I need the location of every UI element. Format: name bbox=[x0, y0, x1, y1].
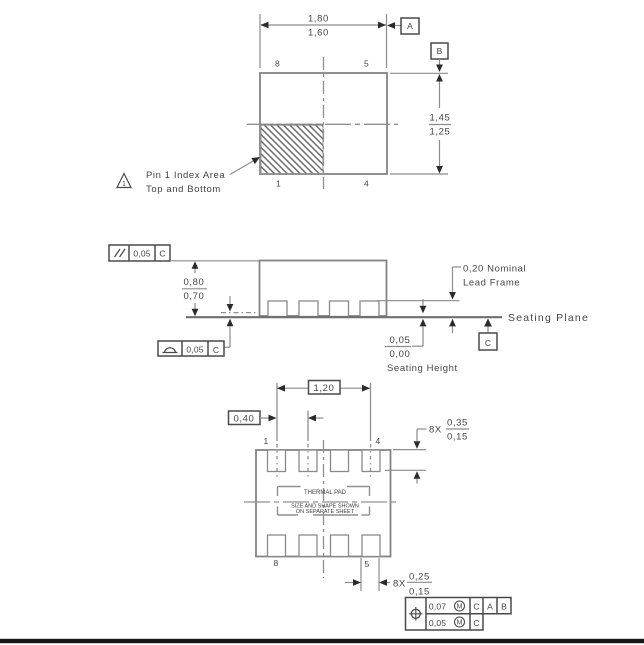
svg-text:0,05: 0,05 bbox=[133, 249, 150, 259]
lead frame hidden line bbox=[221, 312, 258, 314]
bottom view: pad 8 bbox=[268, 535, 286, 557]
top view: extension line right bbox=[386, 14, 388, 68]
pin 1 note leader bbox=[230, 157, 260, 175]
svg-text:1,20: 1,20 bbox=[314, 383, 335, 394]
side view: lead 2 bbox=[299, 301, 318, 317]
svg-text:1: 1 bbox=[264, 436, 269, 446]
dimension 0,40 bbox=[229, 411, 324, 425]
seating plane flatness feature control frame bbox=[158, 341, 224, 356]
bottom view: pad 5 bbox=[362, 535, 380, 557]
svg-text:Top and Bottom: Top and Bottom bbox=[146, 184, 221, 195]
dimension 1,45/1,25 bbox=[390, 73, 451, 174]
svg-text:0,05: 0,05 bbox=[390, 335, 411, 346]
svg-text:C: C bbox=[485, 338, 491, 348]
lead frame top extension line bbox=[377, 300, 460, 302]
datum feature symbol B bbox=[431, 43, 448, 72]
svg-text:0,15: 0,15 bbox=[409, 587, 430, 598]
svg-text:B: B bbox=[501, 602, 507, 612]
bottom view: pad 6 bbox=[331, 535, 349, 557]
bottom view: pad 4 bbox=[362, 450, 380, 472]
dimension 8X 0,35/0,15 bbox=[385, 418, 469, 484]
svg-text:ON SEPARATE SHEET: ON SEPARATE SHEET bbox=[296, 509, 355, 515]
bottom view: vertical centerline bbox=[323, 440, 325, 578]
svg-text:1: 1 bbox=[276, 179, 281, 189]
svg-text:8: 8 bbox=[275, 59, 280, 69]
svg-text:0,05: 0,05 bbox=[186, 345, 203, 355]
dimension 8X 0,25/0,15 bbox=[345, 558, 432, 598]
svg-text:1,45: 1,45 bbox=[430, 113, 451, 124]
svg-text:4: 4 bbox=[376, 436, 381, 446]
top view: package body outline bbox=[260, 73, 387, 174]
svg-text:C: C bbox=[213, 345, 219, 355]
svg-text:0,25: 0,25 bbox=[409, 572, 430, 583]
svg-text:1,80: 1,80 bbox=[308, 14, 329, 25]
seating plane line bbox=[186, 316, 502, 318]
svg-text:0,35: 0,35 bbox=[447, 418, 468, 429]
svg-text:5: 5 bbox=[365, 559, 370, 569]
svg-text:0,20 Nominal: 0,20 Nominal bbox=[463, 264, 526, 275]
svg-text:1,60: 1,60 bbox=[308, 28, 329, 39]
side view: lead 1 bbox=[268, 301, 287, 317]
bottom view: pad 7 bbox=[299, 535, 317, 557]
svg-text:C: C bbox=[159, 249, 165, 259]
svg-text:4: 4 bbox=[364, 179, 369, 189]
pin 1 index hatched area bbox=[213, 119, 377, 181]
bottom view: pad 2 bbox=[299, 450, 317, 472]
svg-text:0,40: 0,40 bbox=[234, 414, 255, 425]
seating plane flatness arrows bbox=[225, 296, 234, 347]
top view: extension line left bbox=[259, 14, 261, 68]
svg-text:8X: 8X bbox=[429, 425, 442, 436]
svg-text:Pin 1 Index Area: Pin 1 Index Area bbox=[146, 170, 225, 181]
svg-text:A: A bbox=[407, 21, 413, 31]
bottom view: pad 3 bbox=[331, 450, 349, 472]
svg-text:THERMAL PAD: THERMAL PAD bbox=[304, 490, 347, 496]
datum feature symbol C bbox=[479, 319, 497, 351]
svg-text:1,25: 1,25 bbox=[430, 127, 451, 138]
side view: lead 3 bbox=[330, 301, 349, 317]
top view: horizontal centerline bbox=[247, 123, 398, 125]
side view: package body outline bbox=[260, 261, 387, 317]
dimension 1,20 bbox=[277, 381, 370, 395]
top view: vertical centerline bbox=[323, 57, 325, 189]
svg-text:B: B bbox=[437, 46, 443, 56]
svg-text:0,07: 0,07 bbox=[429, 602, 446, 612]
bottom border bar bbox=[0, 639, 644, 643]
dimension 0,20 lower arrow bbox=[449, 319, 456, 333]
bottom view: package body outline bbox=[256, 450, 391, 557]
parallelism feature control frame bbox=[109, 245, 170, 261]
svg-text:0,05: 0,05 bbox=[429, 618, 446, 628]
bottom view: horizontal centerline bbox=[244, 501, 400, 503]
svg-text:8X: 8X bbox=[393, 579, 406, 590]
svg-text:8: 8 bbox=[274, 558, 279, 568]
datum feature symbol A bbox=[387, 18, 419, 34]
svg-text:0,00: 0,00 bbox=[390, 349, 411, 360]
pin 1 note flag triangle bbox=[117, 174, 131, 189]
leader from parallelism frame to body top bbox=[170, 260, 260, 262]
svg-text:1: 1 bbox=[122, 181, 126, 188]
dimension 1,80/1,60 bbox=[261, 14, 387, 39]
bottom view: pad 1 bbox=[268, 450, 286, 472]
svg-text:0,70: 0,70 bbox=[184, 291, 205, 302]
pad 4 center extension line bbox=[370, 383, 372, 477]
svg-text:A: A bbox=[487, 602, 493, 612]
pad 1 center extension line bbox=[276, 383, 278, 477]
pad 2 center extension line bbox=[307, 411, 309, 478]
svg-text:5: 5 bbox=[364, 59, 369, 69]
seating height dimension bbox=[385, 299, 458, 374]
svg-text:M: M bbox=[457, 604, 463, 611]
svg-text:M: M bbox=[457, 620, 463, 627]
svg-text:0,80: 0,80 bbox=[184, 277, 205, 288]
svg-text:Seating Plane: Seating Plane bbox=[508, 312, 589, 324]
svg-text:Seating Height: Seating Height bbox=[387, 363, 458, 374]
svg-text:C: C bbox=[473, 602, 479, 612]
svg-text:C: C bbox=[473, 618, 479, 628]
thermal pad outline bbox=[278, 487, 370, 516]
position tolerance feature control frame bbox=[406, 598, 512, 631]
dimension 0,80/0,70 bbox=[182, 261, 207, 316]
svg-text:Lead Frame: Lead Frame bbox=[463, 278, 520, 289]
dimension 0,20 nominal lead frame bbox=[449, 264, 526, 300]
svg-text:0,15: 0,15 bbox=[447, 432, 468, 443]
side view: lead 4 bbox=[360, 301, 379, 317]
